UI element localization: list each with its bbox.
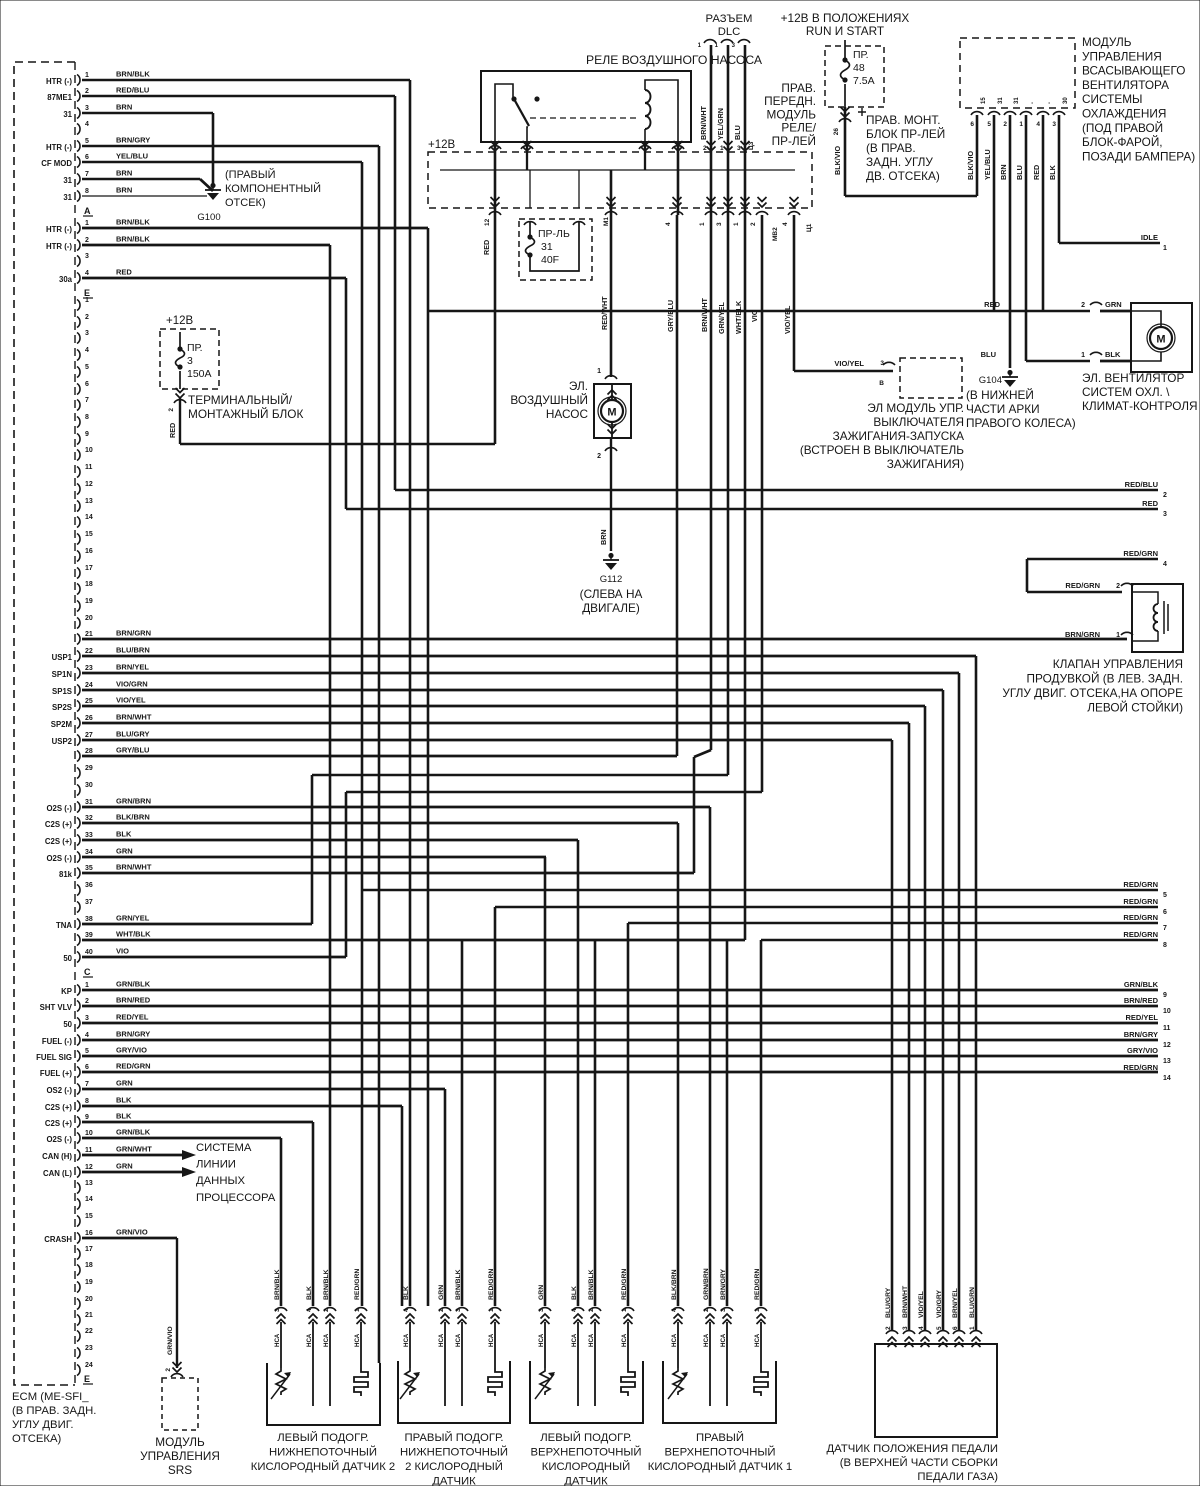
svg-text:RED/WHT: RED/WHT: [600, 296, 609, 330]
svg-text:C2S (+): C2S (+): [45, 820, 72, 829]
svg-text:BRN/BLK: BRN/BLK: [274, 1269, 281, 1300]
svg-text:RED: RED: [1032, 165, 1041, 180]
fan motor M2 box: [1131, 303, 1192, 372]
wire BRN/BLK S2p4 column A1: [409, 80, 412, 1306]
svg-text:2: 2: [165, 1368, 172, 1372]
svg-text:БЛОК ПР-ЛЕЙ: БЛОК ПР-ЛЕЙ: [866, 127, 945, 141]
svg-text:ЭЛ МОДУЛЬ УПР.: ЭЛ МОДУЛЬ УПР.: [867, 401, 964, 415]
svg-text:ДВИГАЛЕ): ДВИГАЛЕ): [582, 601, 640, 615]
svg-text:GRN/VIO: GRN/VIO: [116, 1228, 148, 1237]
svg-text:14: 14: [1163, 1075, 1171, 1082]
svg-text:BLK: BLK: [116, 830, 132, 839]
ECM pin C38: [77, 919, 80, 930]
intake fan module pins: [971, 112, 983, 115]
svg-text:ОХЛАЖДЕНИЯ: ОХЛАЖДЕНИЯ: [1082, 107, 1166, 121]
svg-text:O2S (-): O2S (-): [46, 1135, 72, 1144]
svg-text:1: 1: [699, 222, 706, 226]
svg-text:BRN/RED: BRN/RED: [116, 996, 151, 1005]
wire C33 BLK: [82, 839, 578, 842]
svg-text:ВЕНТИЛЯТОРА: ВЕНТИЛЯТОРА: [1082, 78, 1169, 92]
svg-text:ЧАСТИ АРКИ: ЧАСТИ АРКИ: [966, 402, 1040, 416]
svg-text:C2S (+): C2S (+): [45, 1119, 72, 1128]
ECM pin D4: [77, 1035, 80, 1046]
svg-text:31: 31: [85, 799, 93, 806]
svg-text:3: 3: [85, 1015, 89, 1022]
svg-text:1: 1: [597, 368, 601, 375]
svg-text:2: 2: [85, 998, 89, 1005]
svg-text:C: C: [84, 967, 91, 977]
svg-text:М: М: [1156, 334, 1165, 346]
ECM pin C14: [77, 517, 80, 528]
wire BRN/WHT jog: [694, 750, 711, 757]
svg-text:BLU/GRY: BLU/GRY: [885, 1287, 892, 1318]
svg-text:HTR (-): HTR (-): [46, 242, 72, 251]
svg-text:2: 2: [85, 88, 89, 95]
svg-text:SP2S: SP2S: [52, 703, 72, 712]
wire BRN/GRY column A5: [378, 146, 381, 1363]
fuse F31 dashed box: [519, 219, 592, 280]
svg-text:31: 31: [1014, 97, 1020, 104]
svg-text:SRS: SRS: [168, 1463, 192, 1477]
svg-text:C2S (+): C2S (+): [45, 1103, 72, 1112]
svg-text:BLU: BLU: [1015, 165, 1024, 180]
wire D6 RED/GRN: [82, 1071, 1158, 1074]
svg-text:НСА: НСА: [571, 1333, 578, 1347]
svg-text:BLU/GRN: BLU/GRN: [969, 1287, 976, 1318]
svg-text:26: 26: [833, 128, 840, 136]
svg-text:5: 5: [1163, 892, 1167, 899]
wire relay pin4 drop: [677, 142, 680, 215]
relay coil L1: [645, 90, 651, 129]
svg-text:КЛИМАТ-КОНТРОЛЯ: КЛИМАТ-КОНТРОЛЯ: [1082, 399, 1198, 413]
wire RED/BLU riser A2: [394, 96, 397, 490]
wire GRN/BRN S4p2 column: [709, 807, 712, 1306]
svg-text:RED/GRN: RED/GRN: [116, 1062, 151, 1071]
fuse F3 dashed box: [160, 329, 219, 389]
wire D3 RED/YEL: [82, 1022, 1158, 1025]
svg-text:ВЕРХНЕПОТОЧНЫЙ: ВЕРХНЕПОТОЧНЫЙ: [665, 1446, 776, 1459]
svg-text:GRN/YEL: GRN/YEL: [116, 914, 150, 923]
svg-text:VIO/YEL: VIO/YEL: [834, 359, 864, 368]
svg-text:6: 6: [85, 1064, 89, 1071]
svg-text:3: 3: [1052, 121, 1056, 128]
ECM pin C24: [77, 685, 80, 696]
ECM pin C26: [77, 718, 80, 729]
wire C28 GRY/BLU: [82, 755, 677, 758]
ECM pin A4: [77, 124, 80, 135]
fan motor M2 symbol: [1150, 327, 1172, 349]
svg-text:GRN/BRN: GRN/BRN: [116, 797, 151, 806]
svg-text:GRN/BLK: GRN/BLK: [1124, 980, 1159, 989]
svg-text:BLK: BLK: [1105, 350, 1121, 359]
wire D8 BLK: [82, 1105, 402, 1108]
svg-text:CAN (H): CAN (H): [42, 1152, 72, 1161]
+12V internal bus wire: [440, 169, 795, 171]
air pump motor M1 symbol: [601, 400, 623, 422]
svg-text:9: 9: [1163, 992, 1167, 999]
svg-text:ПР-ЛЬ: ПР-ЛЬ: [538, 228, 570, 240]
wire YEL/BLU module drop: [993, 115, 996, 311]
svg-text:20: 20: [85, 615, 93, 622]
svg-text:ДАТЧИК ПОЛОЖЕНИЯ ПЕДАЛИ: ДАТЧИК ПОЛОЖЕНИЯ ПЕДАЛИ: [827, 1443, 998, 1455]
svg-text:+12В: +12В: [166, 315, 194, 327]
wire RED/GRN exit 4: [1027, 558, 1158, 561]
wire BLK IDLE exit: [1059, 242, 1160, 245]
svg-text:НСА: НСА: [403, 1333, 410, 1347]
svg-text:4: 4: [85, 121, 89, 128]
svg-text:3: 3: [187, 355, 193, 367]
svg-text:GRN/YEL: GRN/YEL: [717, 301, 726, 334]
ECM pin C16: [77, 551, 80, 562]
svg-text:НАСОС: НАСОС: [546, 407, 589, 421]
wire RED riser E4: [345, 278, 348, 509]
wire C32 BLK/BRN: [82, 822, 678, 825]
svg-text:МВ2: МВ2: [772, 227, 779, 241]
svg-text:13: 13: [85, 498, 93, 505]
svg-text:МОДУЛЬ: МОДУЛЬ: [767, 107, 817, 121]
svg-text:30: 30: [1063, 97, 1069, 104]
svg-text:19: 19: [85, 1279, 93, 1286]
svg-text:38: 38: [85, 916, 93, 923]
svg-text:BRN: BRN: [116, 186, 132, 195]
svg-text:35: 35: [85, 865, 93, 872]
svg-text:НСА: НСА: [621, 1333, 628, 1347]
air pump motor pins: [611, 384, 613, 400]
oxygen sensor 3 box: [530, 1361, 643, 1423]
svg-text:RED/GRN: RED/GRN: [1065, 581, 1100, 590]
svg-text:GRN/WHT: GRN/WHT: [116, 1145, 152, 1154]
wire C34 GRN: [82, 856, 546, 859]
ECM pin D10: [77, 1133, 80, 1144]
svg-text:32: 32: [85, 815, 93, 822]
svg-text:1: 1: [85, 982, 89, 989]
svg-text:M1: M1: [603, 217, 610, 226]
svg-text:МОДУЛЬ: МОДУЛЬ: [1082, 35, 1132, 49]
svg-text:РЕЛЕ/: РЕЛЕ/: [781, 121, 816, 135]
wire VIO/YEL to ignition module: [794, 370, 893, 373]
svg-text:4: 4: [85, 347, 89, 354]
ground G112: [608, 553, 613, 558]
svg-text:16: 16: [85, 1230, 93, 1237]
svg-text:(В ПРАВ. ЗАДН.: (В ПРАВ. ЗАДН.: [12, 1405, 96, 1417]
relay switch contact: [511, 96, 516, 101]
svg-text:BLU/BRN: BLU/BRN: [116, 646, 150, 655]
relay dashed actuator line: [530, 117, 638, 119]
wire BRN/BLK S3p2 column: [594, 941, 597, 1306]
svg-text:13: 13: [1163, 1058, 1171, 1065]
svg-text:24: 24: [85, 1362, 93, 1369]
chevrons into +12V box top: [491, 141, 500, 151]
svg-text:RED/GRN: RED/GRN: [354, 1269, 361, 1300]
wire D9 BLK: [82, 1121, 313, 1124]
svg-text:3: 3: [716, 222, 723, 226]
svg-text:ПРАВОГО КОЛЕСА): ПРАВОГО КОЛЕСА): [966, 416, 1076, 430]
svg-text:BLU/GRY: BLU/GRY: [116, 730, 149, 739]
ECM pin C31: [77, 802, 80, 813]
oxygen sensor 1 box: [267, 1363, 380, 1425]
svg-text:15: 15: [85, 1213, 93, 1220]
svg-text:ОТСЕКА): ОТСЕКА): [12, 1433, 61, 1445]
oxygen sensor 2 box: [398, 1361, 510, 1423]
wire BRN/BLK S2p3 column: [461, 941, 464, 1306]
svg-text:37: 37: [85, 899, 93, 906]
svg-text:IDLE: IDLE: [1141, 233, 1158, 242]
svg-text:4: 4: [782, 222, 789, 226]
wire RED/GRN S2p1 column: [494, 907, 497, 1306]
ECM pin A1: [77, 75, 80, 86]
svg-text:12: 12: [85, 1164, 93, 1171]
svg-text:НСА: НСА: [703, 1333, 710, 1347]
svg-text:9: 9: [85, 431, 89, 438]
ECM pin A3: [77, 108, 80, 119]
svg-text:+12В: +12В: [428, 139, 456, 151]
svg-text:BRN: BRN: [116, 103, 132, 112]
svg-text:30: 30: [85, 782, 93, 789]
fuse F3 exit chevron: [176, 388, 185, 398]
svg-text:O2S (-): O2S (-): [46, 854, 72, 863]
svg-text:1: 1: [85, 220, 89, 227]
svg-text:4: 4: [918, 1326, 925, 1330]
wire WHT/BLK upper: [744, 45, 747, 940]
ECM pin C9: [77, 434, 80, 445]
svg-text:20: 20: [85, 1296, 93, 1303]
svg-text:OS2 (-): OS2 (-): [46, 1086, 72, 1095]
svg-text:УПРАВЛЕНИЯ: УПРАВЛЕНИЯ: [1082, 49, 1162, 63]
ground G100: [210, 183, 215, 188]
svg-text:KP: KP: [61, 987, 72, 996]
relay switch wiring: [495, 84, 513, 142]
wire BLK module drop: [1058, 115, 1061, 243]
svg-text:НСА: НСА: [488, 1333, 495, 1347]
svg-text:ПРАВЫЙ: ПРАВЫЙ: [696, 1431, 744, 1444]
CAN L arrowhead: [170, 1167, 196, 1177]
wire D2 BRN/RED: [82, 1005, 1158, 1008]
svg-text:WHT/BLK: WHT/BLK: [116, 930, 151, 939]
ECM pin C35: [77, 868, 80, 879]
svg-text:14: 14: [85, 1196, 93, 1203]
wire GRN/VIO down to SRS: [176, 1238, 178, 1368]
wire A5 BRN/GRY: [82, 145, 379, 148]
svg-text:-: -: [1030, 102, 1036, 104]
wire GRN/YEL upper: [727, 45, 730, 775]
wire A1 BRN/BLK: [82, 79, 410, 82]
wire GRN/BLK S1p3 column: [280, 1138, 283, 1306]
wire C40 VIO: [82, 956, 346, 959]
chevrons out of +12V box bottom: [491, 197, 500, 207]
fuse F48 dashed box: [825, 46, 884, 107]
wire A2 RED/BLU: [82, 95, 395, 98]
ECM pin B3: [77, 256, 80, 267]
ECM pin A6: [77, 157, 80, 168]
svg-text:22: 22: [85, 1328, 93, 1335]
svg-text:DLC: DLC: [718, 26, 741, 38]
svg-text:(В ВЕРХНЕЙ ЧАСТИ СБОРКИ: (В ВЕРХНЕЙ ЧАСТИ СБОРКИ: [840, 1456, 998, 1469]
svg-text:2: 2: [1003, 121, 1007, 128]
svg-text:(В ПРАВ.: (В ПРАВ.: [866, 141, 916, 155]
svg-text:VIO/GRN: VIO/GRN: [116, 680, 148, 689]
wire C22 BLU/BRN: [82, 655, 976, 658]
svg-text:7: 7: [85, 1081, 89, 1088]
svg-text:E: E: [84, 288, 90, 298]
svg-text:2: 2: [1081, 302, 1085, 309]
svg-text:BRN/YEL: BRN/YEL: [116, 663, 149, 672]
svg-text:RED/GRN: RED/GRN: [1123, 913, 1158, 922]
wire relay pin2 stub: [526, 142, 528, 170]
svg-text:7.5А: 7.5А: [853, 75, 875, 87]
ECM pin C10: [77, 450, 80, 461]
wire BRN module drop to G104: [1009, 115, 1012, 368]
wire BLK S2 column D8: [401, 1106, 404, 1306]
svg-text:29: 29: [85, 765, 93, 772]
svg-text:GRN/BLK: GRN/BLK: [116, 980, 151, 989]
svg-text:7: 7: [1163, 925, 1167, 932]
svg-text:5: 5: [85, 138, 89, 145]
ECM pin C17: [77, 568, 80, 579]
svg-text:4: 4: [665, 222, 672, 226]
ECM pin C29: [77, 768, 80, 779]
svg-text:BRN: BRN: [999, 164, 1008, 180]
svg-text:СИСТЕМЫ: СИСТЕМЫ: [1082, 92, 1142, 106]
wire D7 GRN: [82, 1088, 445, 1091]
svg-text:КИСЛОРОДНЫЙ: КИСЛОРОДНЫЙ: [542, 1460, 630, 1473]
svg-text:5: 5: [936, 1326, 943, 1330]
wire BLU module drop: [1025, 115, 1028, 361]
wire pedal col 5 VIO/GRY: [942, 690, 945, 1330]
svg-text:2: 2: [1163, 492, 1167, 499]
svg-text:УГЛУ ДВИГ.: УГЛУ ДВИГ.: [12, 1419, 74, 1431]
svg-text:1: 1: [1116, 632, 1120, 639]
svg-text:ВОЗДУШНЫЙ: ВОЗДУШНЫЙ: [510, 393, 588, 407]
svg-text:VIO/YEL: VIO/YEL: [918, 1291, 925, 1318]
svg-text:40F: 40F: [541, 254, 559, 266]
wire D5 GRY/VIO: [82, 1055, 1158, 1058]
wire relay coil stub: [644, 142, 646, 170]
ECM pin C7: [77, 400, 80, 411]
wire GRN/YEL link: [312, 774, 728, 777]
wire A7 BRN: [82, 178, 200, 181]
svg-text:ПРАВ.: ПРАВ.: [781, 81, 816, 95]
svg-text:50: 50: [63, 954, 72, 963]
svg-text:BLK/BRN: BLK/BRN: [116, 813, 150, 822]
svg-text:BRN/GRN: BRN/GRN: [1065, 630, 1100, 639]
svg-text:87ME1: 87ME1: [47, 93, 72, 102]
svg-text:НИЖНЕПОТОЧНЫЙ: НИЖНЕПОТОЧНЫЙ: [269, 1446, 377, 1459]
svg-text:ПР-ЛЕЙ: ПР-ЛЕЙ: [772, 134, 816, 148]
svg-text:ДАТЧИК: ДАТЧИК: [564, 1476, 608, 1486]
svg-text:81k: 81k: [59, 870, 73, 879]
svg-text:ЗАЖИГАНИЯ-ЗАПУСКА: ЗАЖИГАНИЯ-ЗАПУСКА: [833, 429, 965, 443]
svg-text:50: 50: [63, 1020, 72, 1029]
svg-text:6: 6: [1163, 909, 1167, 916]
svg-text:КЛАПАН УПРАВЛЕНИЯ: КЛАПАН УПРАВЛЕНИЯ: [1053, 657, 1183, 671]
svg-text:FUEL SIG: FUEL SIG: [36, 1053, 72, 1062]
svg-text:BLK: BLK: [1048, 164, 1057, 180]
ECM pin C23: [77, 668, 80, 679]
svg-text:40: 40: [85, 949, 93, 956]
ECM pin C40: [77, 952, 80, 963]
svg-text:10: 10: [1163, 1008, 1171, 1015]
svg-text:1: 1: [85, 72, 89, 79]
svg-text:7: 7: [85, 397, 89, 404]
svg-text:13: 13: [85, 1180, 93, 1187]
svg-text:19: 19: [85, 598, 93, 605]
svg-text:C2S (+): C2S (+): [45, 837, 72, 846]
fan motor internal wires: [1131, 311, 1161, 327]
wire C35 BRN/WHT: [82, 872, 694, 875]
ECM pin C8: [77, 417, 80, 428]
svg-text:ДВ. ОТСЕКА): ДВ. ОТСЕКА): [866, 169, 940, 183]
svg-text:RED: RED: [984, 300, 1000, 309]
svg-text:GRN: GRN: [1105, 300, 1122, 309]
relay pin arcs: [489, 146, 501, 149]
svg-text:ЭЛ.: ЭЛ.: [569, 379, 588, 393]
ECM pin C28: [77, 751, 80, 762]
ECM pin D9: [77, 1117, 80, 1128]
svg-text:26: 26: [85, 715, 93, 722]
wire C31 GRN/BRN: [82, 806, 710, 809]
svg-text:SP2M: SP2M: [51, 720, 72, 729]
svg-text:BRN/WHT: BRN/WHT: [902, 1285, 909, 1318]
svg-text:НИЖНЕПОТОЧНЫЙ: НИЖНЕПОТОЧНЫЙ: [400, 1446, 508, 1459]
ECM pin D17: [77, 1249, 80, 1260]
svg-text:3: 3: [85, 330, 89, 337]
svg-text:VIO: VIO: [116, 947, 129, 956]
svg-text:ПОЗАДИ БАМПЕРА): ПОЗАДИ БАМПЕРА): [1082, 149, 1195, 163]
svg-text:11: 11: [85, 1147, 93, 1154]
svg-text:21: 21: [85, 1312, 93, 1319]
wire BRN/BLK S2 column E1: [427, 228, 430, 1306]
svg-text:150А: 150А: [187, 368, 212, 380]
wire BLK/VIO module drop: [976, 115, 979, 196]
svg-text:BLK/VIO: BLK/VIO: [966, 150, 975, 180]
svg-text:CRASH: CRASH: [44, 1235, 72, 1244]
svg-text:BLK: BLK: [116, 1096, 132, 1105]
svg-text:HTR (-): HTR (-): [46, 143, 72, 152]
intake fan control module dashed box: [960, 38, 1075, 108]
svg-text:15: 15: [85, 531, 93, 538]
svg-text:3: 3: [902, 1326, 909, 1330]
svg-text:2: 2: [85, 314, 89, 321]
wire BLU fan link: [1026, 360, 1090, 363]
ECM pin D3: [77, 1018, 80, 1029]
wire BRN air pump to G112: [610, 455, 612, 551]
svg-text:RED: RED: [482, 240, 491, 255]
ECM pin D21: [77, 1315, 80, 1326]
wire pedal col 3 BRN/WHT: [908, 723, 911, 1330]
svg-text:33: 33: [85, 832, 93, 839]
svg-text:1: 1: [733, 222, 740, 226]
svg-text:КОМПОНЕНТНЫЙ: КОМПОНЕНТНЫЙ: [225, 182, 321, 195]
svg-text:ПРАВЫЙ ПОДОГР.: ПРАВЫЙ ПОДОГР.: [405, 1431, 504, 1444]
svg-text:RED/YEL: RED/YEL: [1125, 1013, 1158, 1022]
svg-text:8: 8: [85, 414, 89, 421]
pedal position sensor box: [875, 1344, 997, 1437]
svg-text:34: 34: [85, 849, 93, 856]
svg-text:HTR (-): HTR (-): [46, 225, 72, 234]
svg-text:GRY/VIO: GRY/VIO: [1127, 1046, 1158, 1055]
ECM pin C19: [77, 601, 80, 612]
wire YEL/BLU S1p1 column: [361, 162, 364, 1306]
svg-text:36: 36: [85, 882, 93, 889]
svg-text:FUEL (-): FUEL (-): [42, 1037, 73, 1046]
svg-text:2: 2: [703, 145, 707, 152]
SRS wire connector: [173, 1362, 182, 1372]
svg-text:РАЗЪЕМ: РАЗЪЕМ: [706, 13, 753, 25]
svg-text:11: 11: [1163, 1025, 1171, 1032]
svg-text:RED/GRN: RED/GRN: [1123, 897, 1158, 906]
svg-text:3: 3: [732, 43, 736, 49]
purge valve coil: [1154, 604, 1159, 631]
